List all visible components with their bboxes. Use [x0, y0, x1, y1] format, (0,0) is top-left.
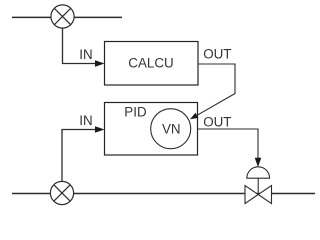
svg-text:CALCU: CALCU — [128, 56, 173, 71]
svg-text:OUT: OUT — [203, 114, 231, 129]
arrowhead into VN circle — [190, 113, 198, 119]
svg-text:VN: VN — [162, 122, 181, 137]
VN circle inside PID — [151, 109, 191, 149]
valve stem — [257, 178, 259, 194]
wire: bottom process line — [12, 193, 315, 195]
block PID — [105, 103, 198, 156]
sensor circle (crossed) bottom — [50, 181, 73, 204]
arrowhead into CALCU — [95, 60, 105, 67]
svg-text:PID: PID — [124, 104, 147, 119]
svg-text:IN: IN — [79, 47, 92, 62]
wire: top process line — [12, 16, 122, 18]
svg-text:IN: IN — [79, 113, 92, 128]
arrowhead into PID — [95, 126, 105, 133]
wire: PID OUT to valve actuator — [197, 129, 258, 160]
sensor circle (crossed) top — [51, 5, 74, 28]
svg-text:OUT: OUT — [203, 47, 231, 62]
wire: from top sensor down and right into CALCU IN — [63, 17, 98, 64]
valve body right triangle — [258, 186, 271, 204]
block CALCU — [105, 42, 199, 86]
wire: CALCU OUT to PID VN — [197, 64, 235, 115]
wire: from bottom sensor up and right into PID IN — [62, 130, 97, 194]
arrowhead onto valve dome — [255, 158, 262, 167]
valve body left triangle — [245, 186, 258, 204]
control valve: actuator dome — [247, 167, 270, 178]
